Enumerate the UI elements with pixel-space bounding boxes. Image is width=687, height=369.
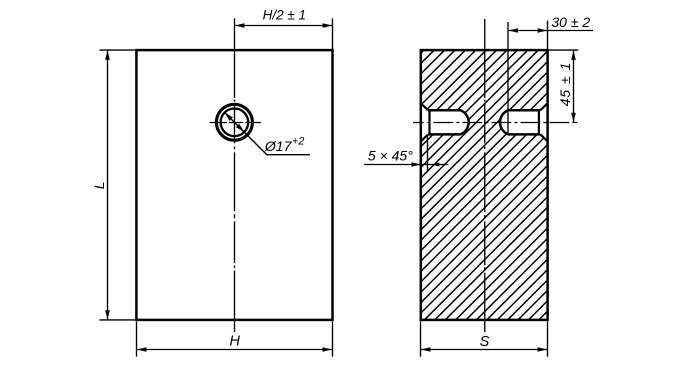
svg-text:+2: +2 (292, 135, 305, 147)
left pocket chamfer/bore transition edge (428, 109, 430, 135)
L dim: bottom extension line (99, 319, 135, 321)
L dimension line (107, 50, 109, 320)
plate outline (front view) (136, 50, 332, 320)
arrowhead on inner circle upper-left (225, 113, 233, 121)
svg-text:45 ± 1: 45 ± 1 (557, 62, 573, 107)
5x45 chamfer dim: leader/dimension line (364, 164, 448, 166)
30 dim: extension of right edge above top (547, 21, 549, 50)
45 bottom arrowhead (571, 113, 576, 123)
right pocket chamfer/bore transition edge (538, 109, 540, 135)
svg-text:S: S (480, 334, 490, 350)
hatched section body (421, 50, 547, 319)
L bottom arrowhead (105, 310, 110, 320)
30 dimension line with tail under text (508, 30, 593, 32)
S dim: right extension below bottom (547, 322, 549, 357)
S right arrowhead (538, 347, 548, 352)
svg-text:5 × 45°: 5 × 45° (368, 148, 413, 164)
right pocket chamfer edges (540, 103, 547, 141)
H right arrowhead (323, 347, 333, 352)
section outline (421, 50, 548, 320)
S dimension line (421, 349, 548, 351)
H left arrowhead (137, 347, 147, 352)
30 dim: extension line at bore full-depth (507, 22, 509, 135)
H/2 left arrowhead (235, 23, 245, 28)
diameter dimension 45deg line with leader to text (225, 113, 310, 155)
L top arrowhead (105, 50, 110, 60)
vertical centerline of hole (view axis) (234, 18, 236, 332)
H/2 right arrowhead (323, 23, 333, 28)
svg-text:Ø17: Ø17 (264, 138, 293, 154)
hole outer circle (chamfer edge circle) (216, 104, 252, 140)
L dim: top extension line (99, 49, 135, 51)
30 left arrowhead (508, 28, 518, 33)
svg-text:H/2 ± 1: H/2 ± 1 (263, 8, 306, 23)
left pocket bore walls and rounded end (428, 110, 469, 134)
svg-text:L: L (91, 181, 107, 189)
H/2 dimension line (235, 25, 333, 27)
H/2 dim: extension of right edge above top (332, 19, 334, 50)
left bore pocket (white) (421, 103, 469, 141)
30 right arrowhead (538, 28, 548, 33)
right pocket bore walls and rounded end (500, 110, 540, 134)
chamfer arrowhead pointing left at depth (431, 163, 439, 167)
horizontal centerline of bore, extended right for 45 dim (413, 122, 577, 124)
45 dimension line (573, 50, 575, 122)
svg-text:H: H (230, 333, 241, 349)
chamfer depth extension line (427, 135, 429, 171)
45 dim: top extension line (549, 49, 579, 51)
arrowhead on inner circle lower-right (236, 124, 244, 132)
right bore pocket (white) (500, 103, 548, 141)
H dim: left extension below bottom (136, 322, 138, 357)
chamfer arrowhead pointing right at surface (412, 162, 422, 167)
S left arrowhead (421, 347, 431, 352)
H dimension line (137, 349, 333, 351)
vertical centerline (section axis) (484, 19, 486, 332)
hole inner circle dia 17 (221, 109, 249, 137)
horizontal centerline of hole (210, 122, 261, 124)
45 top arrowhead (571, 50, 576, 60)
S dim: left extension below bottom (420, 322, 422, 357)
svg-text:30 ± 2: 30 ± 2 (551, 14, 590, 30)
H dim: right extension below bottom (332, 322, 334, 357)
left pocket chamfer edges (421, 103, 428, 141)
